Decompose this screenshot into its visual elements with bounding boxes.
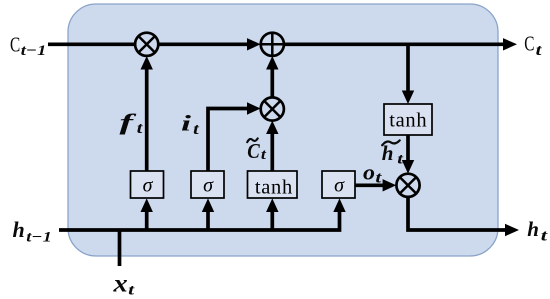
svg-text:σ: σ [143, 175, 154, 197]
svg-text:t−1: t−1 [26, 229, 52, 245]
svg-text:x: x [112, 271, 127, 298]
svg-text:t−1: t−1 [21, 43, 47, 59]
svg-text:σ: σ [334, 175, 345, 197]
svg-text:t: t [137, 120, 143, 137]
svg-text:h: h [13, 217, 25, 242]
svg-text:σ: σ [203, 175, 214, 197]
svg-text:i: i [181, 111, 192, 136]
svg-text:t: t [193, 121, 199, 138]
svg-text:t: t [536, 42, 543, 59]
svg-text:t: t [375, 169, 382, 186]
svg-text:C: C [10, 32, 20, 56]
svg-text:C: C [524, 31, 534, 55]
svg-text:tanh: tanh [255, 176, 293, 198]
svg-text:h: h [527, 217, 539, 241]
svg-text:o: o [363, 159, 375, 184]
svg-text:C: C [247, 139, 260, 163]
svg-text:tanh: tanh [389, 109, 427, 131]
svg-text:t: t [541, 228, 548, 245]
